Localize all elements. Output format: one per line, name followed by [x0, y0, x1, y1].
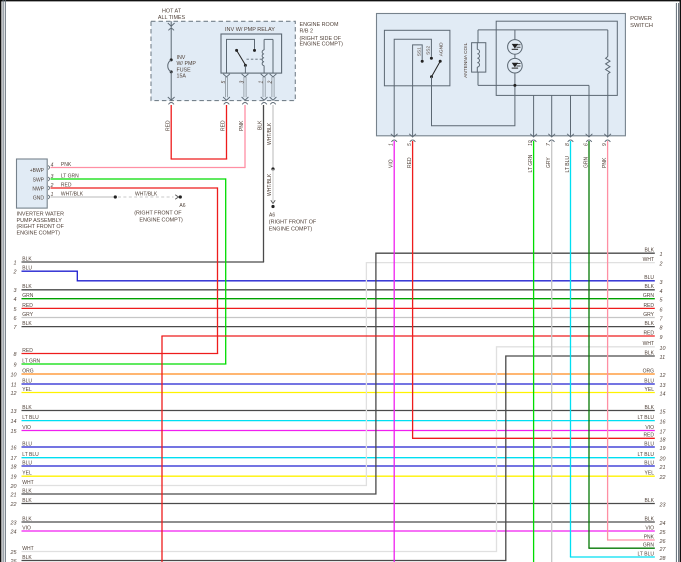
svg-text:RED: RED — [22, 348, 33, 354]
svg-text:BLU: BLU — [22, 378, 32, 384]
svg-text:WHT: WHT — [643, 257, 654, 263]
svg-text:ENGINE COMPT): ENGINE COMPT) — [139, 218, 183, 224]
svg-text:RED: RED — [165, 120, 171, 131]
switch contact SS2 path (pin 1) — [394, 39, 433, 136]
svg-text:YEL: YEL — [645, 387, 655, 393]
svg-text:25: 25 — [659, 530, 667, 536]
border frame right edge — [679, 0, 681, 562]
svg-text:9: 9 — [14, 362, 17, 368]
svg-text:BLK: BLK — [645, 516, 655, 522]
svg-text:VIO: VIO — [645, 425, 654, 431]
svg-text:26: 26 — [659, 539, 666, 545]
ground reference A6 (relay side) — [269, 212, 317, 232]
svg-text:BLK: BLK — [645, 350, 655, 356]
svg-text:BLK: BLK — [645, 498, 655, 504]
svg-text:21: 21 — [10, 492, 17, 498]
svg-text:SWP: SWP — [33, 177, 45, 183]
svg-text:PUMP ASSEMBLY: PUMP ASSEMBLY — [17, 218, 63, 224]
relay pin 2 lead — [267, 74, 276, 105]
svg-text:WHT: WHT — [22, 546, 33, 552]
svg-text:BLK: BLK — [645, 248, 655, 254]
svg-text:24: 24 — [10, 529, 17, 535]
svg-text:PNK: PNK — [61, 162, 72, 168]
resistor R (illumination) — [606, 30, 610, 136]
svg-text:16: 16 — [660, 420, 666, 426]
wire PNK row R26 from pin 9 — [607, 141, 666, 545]
svg-text:BLK: BLK — [22, 284, 32, 290]
svg-text:10: 10 — [11, 372, 17, 378]
svg-text:16: 16 — [11, 445, 17, 451]
wire LT GRN pump pin3 — [51, 174, 226, 180]
relay coil — [262, 39, 273, 73]
power switch pin 8 — [565, 134, 574, 173]
svg-text:BLU: BLU — [644, 275, 654, 281]
svg-text:BLK: BLK — [22, 555, 32, 561]
svg-text:GRN: GRN — [643, 293, 655, 299]
relay INV W/ PMP RELAY box — [221, 27, 282, 73]
svg-text:13: 13 — [11, 409, 17, 415]
svg-text:INV: INV — [177, 55, 186, 61]
svg-text:22: 22 — [10, 502, 17, 508]
svg-text:14: 14 — [660, 392, 666, 398]
svg-text:12: 12 — [660, 373, 666, 379]
power switch pin 1 — [389, 134, 398, 168]
pump pin 2 — [48, 183, 53, 190]
pump pin 1 — [48, 192, 53, 199]
svg-text:20: 20 — [10, 484, 17, 490]
svg-text:BLU: BLU — [644, 378, 654, 384]
node LED common junction — [513, 84, 516, 87]
svg-text:INVERTER WATER: INVERTER WATER — [17, 212, 65, 218]
wire RED row R18 from pin 5 — [412, 141, 666, 443]
wire LT GRN pin 10 down — [533, 141, 535, 562]
svg-text:YEL: YEL — [22, 387, 32, 393]
wire RED fuse to splice with relay pin5 — [171, 105, 228, 159]
label ENGINE ROOM R/B 2 — [300, 22, 344, 47]
fuse INV W/ PMP FUSE 15A — [168, 55, 197, 80]
svg-text:RED: RED — [643, 433, 654, 439]
wire GRY row L6/R7 — [14, 312, 664, 323]
svg-text:BLK: BLK — [645, 405, 655, 411]
wire RED row L8 to pump pin2 — [14, 187, 219, 358]
svg-text:W/ PMP: W/ PMP — [177, 61, 197, 67]
wire WHT/BLK pump pin1 to splice A6 — [51, 192, 182, 200]
svg-text:11: 11 — [11, 382, 17, 388]
wire switch arm to LED common — [432, 77, 515, 126]
pump pin 4 — [48, 162, 53, 169]
label PNK wire — [239, 120, 245, 131]
power switch pin 10 — [528, 134, 537, 173]
switch contact SS1 path (pin 5) — [413, 45, 424, 136]
power switch pin 6 — [583, 134, 592, 168]
label WHT/BLK wire — [267, 122, 273, 145]
svg-text:BLU: BLU — [644, 441, 654, 447]
svg-text:9: 9 — [660, 335, 663, 341]
pump pin 3 — [48, 174, 53, 181]
svg-text:SWITCH: SWITCH — [630, 23, 653, 29]
wire YEL row L12/R14 — [11, 387, 666, 398]
svg-text:17: 17 — [660, 430, 667, 436]
svg-text:BLK: BLK — [645, 321, 655, 327]
svg-text:NWP: NWP — [32, 186, 44, 192]
inverter water pump assembly box — [17, 159, 48, 208]
svg-text:A6: A6 — [179, 203, 185, 209]
svg-text:LT BLU: LT BLU — [22, 415, 39, 421]
svg-text:21: 21 — [659, 465, 666, 471]
svg-text:GND: GND — [33, 196, 45, 202]
wire BLK row L26/R11 — [10, 350, 666, 562]
svg-text:17: 17 — [11, 456, 18, 462]
svg-text:SS1: SS1 — [416, 47, 422, 56]
pump assembly caption — [17, 212, 65, 237]
wire BLK row L23/R24 — [10, 516, 666, 527]
relay mechanical link (dashed) — [247, 58, 263, 60]
svg-text:GRY: GRY — [22, 312, 33, 318]
svg-text:VIO: VIO — [645, 525, 654, 531]
wire ORG row L10/R12 — [11, 368, 666, 379]
power switch pin 5 — [407, 134, 416, 168]
wire hot feed into fuse — [168, 21, 175, 58]
border frame top edge — [0, 0, 681, 2]
svg-text:RED: RED — [61, 183, 72, 189]
switch sub-box — [384, 30, 450, 86]
svg-text:2: 2 — [659, 262, 663, 268]
wire BLK row L3/R4 — [14, 284, 663, 295]
wire to pin 8 — [570, 95, 572, 135]
svg-text:VIO: VIO — [22, 525, 31, 531]
wire WHT row L25/R10 — [10, 341, 666, 556]
svg-text:ENGINE ROOM: ENGINE ROOM — [300, 22, 339, 28]
svg-text:INV W/ PMP RELAY: INV W/ PMP RELAY — [225, 27, 275, 33]
svg-text:FUSE: FUSE — [177, 67, 192, 73]
svg-text:BLU: BLU — [644, 460, 654, 466]
svg-text:GRY: GRY — [643, 312, 654, 318]
svg-text:3: 3 — [14, 288, 17, 294]
svg-text:20: 20 — [659, 457, 666, 463]
wire LT BLU row R28 from pin 8 — [570, 141, 666, 562]
wire RED row L5/R6 — [14, 303, 663, 314]
wire LT GRN row L9 to pump pin3 — [14, 178, 227, 368]
border frame left edge — [0, 0, 2, 562]
wire VIO row L15/R17 — [11, 425, 667, 436]
svg-text:GRN: GRN — [643, 543, 655, 549]
wire GRN row L4/R5 — [14, 293, 664, 304]
svg-text:14: 14 — [11, 419, 17, 425]
relay pin 1 lead — [259, 74, 268, 105]
svg-text:HOT AT: HOT AT — [162, 9, 182, 15]
svg-text:23: 23 — [10, 520, 17, 526]
svg-text:15A: 15A — [177, 74, 187, 80]
svg-text:1: 1 — [14, 260, 17, 266]
svg-text:3: 3 — [660, 280, 663, 286]
wire fuse output to box edge — [168, 72, 175, 101]
svg-text:LT GRN: LT GRN — [61, 174, 79, 180]
svg-text:25: 25 — [10, 550, 18, 556]
svg-text:BLK: BLK — [22, 321, 32, 327]
wire BLU row L2/R3 with jog — [13, 266, 663, 286]
svg-text:BLK: BLK — [22, 488, 32, 494]
wire PNK pump pin4 to relay pin3 — [51, 105, 246, 168]
svg-text:2: 2 — [13, 270, 17, 276]
wire VIO pin 1 down — [393, 141, 395, 562]
svg-text:SS2: SS2 — [426, 46, 432, 55]
svg-text:ENGINE COMPT): ENGINE COMPT) — [17, 230, 61, 236]
svg-text:28: 28 — [659, 556, 666, 562]
svg-text:15: 15 — [660, 410, 667, 416]
svg-text:ENGINE COMPT): ENGINE COMPT) — [269, 227, 313, 233]
svg-text:ORG: ORG — [22, 368, 34, 374]
wire GRY pin 7 down — [551, 141, 553, 562]
wire YEL row L19/R22 — [11, 471, 666, 482]
wire BLK row L22/R23 — [10, 498, 666, 509]
antenna coil box — [463, 42, 486, 78]
svg-text:PNK: PNK — [644, 534, 655, 540]
svg-text:(RIGHT FRONT OF: (RIGHT FRONT OF — [17, 224, 65, 230]
wire GRN row R27 from pin 6 — [588, 141, 666, 553]
svg-text:BLK: BLK — [22, 516, 32, 522]
svg-text:BLU: BLU — [22, 441, 32, 447]
svg-text:4: 4 — [660, 289, 663, 295]
svg-text:BLK: BLK — [22, 498, 32, 504]
svg-text:27: 27 — [659, 547, 667, 553]
svg-text:11: 11 — [660, 355, 666, 361]
power switch box — [377, 14, 653, 136]
svg-text:ANTENNA COIL: ANTENNA COIL — [463, 42, 469, 78]
svg-text:RED: RED — [643, 330, 654, 336]
switch AGND contact and arm — [430, 42, 445, 78]
svg-text:+BWP: +BWP — [30, 168, 45, 174]
LED D1 — [508, 30, 523, 54]
wire WHT row L20/R2 — [10, 257, 663, 490]
svg-text:(RIGHT FRONT OF: (RIGHT FRONT OF — [134, 211, 182, 217]
svg-text:6: 6 — [14, 316, 17, 322]
svg-text:LT BLU: LT BLU — [638, 551, 655, 557]
wire to pin 10 — [533, 95, 535, 135]
LED sub-box — [496, 21, 617, 95]
engine room R/B 2 dashed box — [151, 21, 295, 100]
svg-text:BLU: BLU — [22, 460, 32, 466]
wire BLK relay to left row 1 — [14, 105, 265, 266]
svg-text:12: 12 — [11, 391, 17, 397]
relay pin 5 lead — [221, 74, 230, 105]
svg-text:1: 1 — [259, 81, 265, 84]
power switch pin 7 — [546, 134, 555, 168]
svg-text:RED: RED — [643, 303, 654, 309]
svg-text:8: 8 — [14, 352, 17, 358]
wire RED row R9 — [161, 330, 662, 562]
svg-text:WHT/BLK: WHT/BLK — [267, 122, 273, 145]
left connector strip — [3, 0, 5, 562]
wire RED pump pin2 — [51, 183, 218, 189]
svg-text:R/B 2: R/B 2 — [300, 29, 313, 35]
power switch pin 9 — [602, 134, 611, 168]
svg-text:8: 8 — [660, 326, 663, 332]
svg-text:YEL: YEL — [22, 471, 32, 477]
svg-text:BLK: BLK — [22, 256, 32, 262]
svg-text:BLK: BLK — [22, 405, 32, 411]
svg-text:6: 6 — [660, 307, 663, 313]
svg-text:VIO: VIO — [22, 425, 31, 431]
wire BLK row L7/R8 — [14, 321, 663, 332]
svg-text:4: 4 — [14, 297, 17, 303]
right connector strip — [676, 3, 678, 562]
label BLK wire — [258, 120, 264, 130]
svg-text:24: 24 — [659, 521, 666, 527]
svg-text:GRN: GRN — [22, 293, 34, 299]
wire BLK row L13/R15 — [11, 405, 667, 416]
wire to pin 7 — [551, 95, 553, 135]
svg-text:13: 13 — [660, 383, 666, 389]
svg-text:LT GRN: LT GRN — [22, 358, 40, 364]
svg-text:A6: A6 — [269, 212, 275, 218]
wire antenna top rail — [478, 30, 608, 43]
svg-text:WHT/BLK: WHT/BLK — [135, 192, 158, 198]
svg-text:2: 2 — [267, 81, 273, 85]
svg-text:RED: RED — [221, 120, 227, 131]
label RED wire — [165, 120, 171, 131]
wire WHT/BLK relay to splice A6 — [267, 105, 275, 208]
svg-text:22: 22 — [659, 475, 666, 481]
svg-text:(RIGHT FRONT OF: (RIGHT FRONT OF — [269, 220, 317, 226]
svg-text:LT BLU: LT BLU — [638, 452, 655, 458]
svg-text:10: 10 — [660, 346, 666, 352]
relay contact (pin 5 path and switch arm) — [227, 39, 257, 73]
LED D2 — [508, 54, 523, 85]
svg-text:5: 5 — [221, 81, 227, 84]
antenna coil winding — [477, 43, 479, 72]
wire LT BLU row L14/R16 — [11, 415, 666, 426]
svg-text:ORG: ORG — [643, 368, 655, 374]
svg-text:15: 15 — [11, 429, 18, 435]
ground reference A6 (pump side) — [134, 203, 186, 223]
relay pin 3 lead — [239, 74, 248, 105]
svg-text:19: 19 — [660, 446, 666, 452]
wire BLU row L11/R13 — [11, 378, 666, 389]
wire BLK row L21/R1 — [10, 248, 663, 499]
svg-text:ENGINE COMPT): ENGINE COMPT) — [300, 42, 344, 48]
svg-text:19: 19 — [11, 475, 17, 481]
wire antenna bottom rail — [478, 72, 589, 85]
wire VIO row L24/R25 — [10, 525, 667, 536]
svg-text:23: 23 — [659, 503, 666, 509]
svg-text:WHT: WHT — [643, 341, 654, 347]
svg-text:WHT: WHT — [22, 480, 33, 486]
svg-text:3: 3 — [239, 81, 245, 84]
label HOT AT ALL TIMES — [158, 9, 186, 21]
svg-text:PNK: PNK — [239, 120, 245, 131]
svg-text:POWER: POWER — [630, 16, 652, 22]
svg-text:18: 18 — [660, 437, 666, 443]
svg-text:18: 18 — [11, 464, 17, 470]
svg-text:BLU: BLU — [22, 266, 32, 272]
svg-text:LT BLU: LT BLU — [638, 415, 655, 421]
wire LED rail to pin 6 — [588, 85, 590, 135]
svg-text:1: 1 — [660, 252, 663, 258]
svg-text:WHT/BLK: WHT/BLK — [267, 173, 273, 196]
svg-text:AGND: AGND — [439, 42, 445, 56]
wire LT BLU row L17/R20 — [11, 452, 666, 463]
svg-text:LT BLU: LT BLU — [22, 452, 39, 458]
fuse pin lead at box edge — [168, 102, 174, 104]
svg-text:WHT/BLK: WHT/BLK — [61, 192, 84, 198]
wire BLU row L18/R21 — [11, 460, 666, 471]
svg-text:ALL TIMES: ALL TIMES — [158, 15, 186, 21]
wire BLU row L16/R19 — [11, 441, 666, 452]
svg-text:YEL: YEL — [645, 471, 655, 477]
label RED wire — [221, 120, 227, 131]
svg-text:BLK: BLK — [258, 120, 264, 130]
svg-text:BLK: BLK — [645, 284, 655, 290]
svg-text:RED: RED — [22, 303, 33, 309]
